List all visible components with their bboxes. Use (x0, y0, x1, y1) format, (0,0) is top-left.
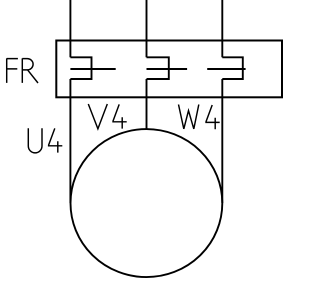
wire V4 to motor (146, 79, 148, 130)
label V4 (88, 104, 126, 129)
wire L2 top (146, 0, 148, 57)
wire W4 to motor (221, 79, 223, 203)
thermal overload relay FR box (56, 41, 282, 98)
linkage dash 2 (147, 68, 188, 70)
label W4 (179, 105, 220, 130)
FR heater element 3 (222, 57, 243, 79)
FR heater element 2 (147, 57, 169, 79)
linkage dash 3 (207, 68, 245, 70)
wire L3 top (221, 0, 223, 57)
FR heater element 1 (70, 57, 91, 79)
linkage dash 1 (70, 68, 115, 70)
motor M circle (70, 129, 222, 277)
label U4 (28, 128, 62, 153)
wire L1 top (69, 0, 71, 57)
wire U4 to motor (69, 79, 71, 203)
label FR (7, 58, 38, 83)
